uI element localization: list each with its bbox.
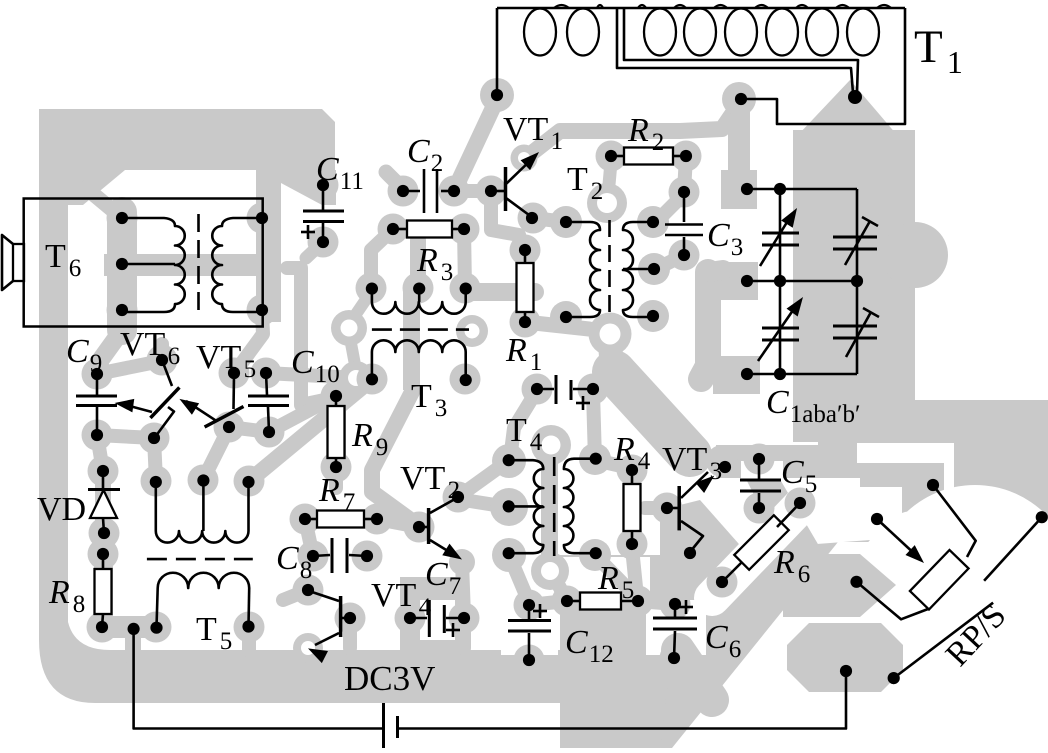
label T1 xyxy=(914,21,963,80)
svg-text:R: R xyxy=(505,332,527,369)
pad T6 tr xyxy=(247,203,278,234)
copper white pocket around C5 xyxy=(741,461,783,515)
svg-text:5: 5 xyxy=(805,471,818,498)
svg-text:2: 2 xyxy=(652,129,665,156)
pad C4 l xyxy=(522,374,553,405)
pad T5 2 xyxy=(188,465,219,496)
pad VT5 coll xyxy=(219,358,250,389)
svg-text:R: R xyxy=(773,544,795,581)
svg-text:1: 1 xyxy=(551,128,564,155)
pad R5 l xyxy=(552,586,583,617)
pad R1 b xyxy=(510,307,541,338)
svg-text:R: R xyxy=(48,574,70,611)
copper trace R4 to VT3 base xyxy=(645,501,667,515)
capacitor C7 electrolytic xyxy=(404,600,470,637)
copper trace T4 bl to C12 xyxy=(509,555,528,600)
copper trace T5 mid up xyxy=(203,430,228,480)
pad T5 4 xyxy=(141,612,172,643)
pad VT6 coll xyxy=(147,345,178,376)
capacitor C6 electrolytic xyxy=(653,598,697,664)
label VT1 xyxy=(503,111,563,155)
copper bottom-center mass with diagonal edge xyxy=(501,540,870,748)
pad VD b xyxy=(89,518,120,549)
copper trace T5 to T3 diagonal xyxy=(249,379,372,481)
copper swath T2 ring down to R4/VT3 xyxy=(610,342,690,455)
potentiometer RP body xyxy=(910,550,969,609)
pad R8 b xyxy=(87,612,118,643)
pad VT2 coll xyxy=(443,482,474,513)
svg-text:C: C xyxy=(407,133,430,170)
svg-text:VT: VT xyxy=(371,577,417,614)
svg-text:C: C xyxy=(425,556,448,593)
pad R8 t xyxy=(88,539,119,570)
capacitor C3 xyxy=(665,186,703,261)
label C12 xyxy=(565,624,614,668)
svg-text:2: 2 xyxy=(591,178,604,205)
svg-text:R: R xyxy=(416,242,438,279)
pad T6 ml xyxy=(107,249,138,280)
transistor VT4 xyxy=(302,584,356,663)
pad R6 b xyxy=(707,567,738,598)
label C11 xyxy=(316,151,364,195)
copper trace VT2 emitter to C7 xyxy=(449,549,475,616)
capacitor C12 electrolytic xyxy=(508,599,551,666)
node junction R8-T5 xyxy=(128,623,140,635)
pad C7 r xyxy=(449,603,480,634)
capacitor C5 xyxy=(740,453,781,514)
label C5 xyxy=(781,454,817,498)
copper trace T6 lower-right diagonal xyxy=(238,312,263,368)
copper island parallelogram under C5 xyxy=(747,481,822,562)
pad VT5 base xyxy=(214,412,245,443)
pad T3 4 xyxy=(357,364,388,395)
resistor R5 xyxy=(561,593,644,610)
label R3 xyxy=(416,242,453,286)
resistor R6 xyxy=(716,497,806,588)
pad C8 r xyxy=(352,541,383,572)
pad R2 right xyxy=(671,141,702,172)
wire T1 right wrap xyxy=(741,8,905,124)
copper island pointed mass xyxy=(783,554,896,617)
svg-text:T: T xyxy=(914,21,943,73)
pad C10 top xyxy=(251,358,282,389)
copper right spade blob xyxy=(793,80,948,442)
transistor VT5 xyxy=(179,367,243,433)
pad VT6 base xyxy=(139,423,170,454)
pad VT1 base xyxy=(476,176,507,207)
copper trace VD to R8 xyxy=(103,533,104,556)
via T3 right xyxy=(456,315,488,347)
label R1 xyxy=(505,332,542,376)
svg-text:11: 11 xyxy=(340,168,364,195)
label T4 xyxy=(506,412,543,456)
pad C7 l xyxy=(395,603,426,634)
resistor R4 xyxy=(624,464,641,550)
battery DC3V xyxy=(384,703,398,748)
svg-text:1aba′b′: 1aba′b′ xyxy=(790,401,861,428)
speaker xyxy=(2,235,24,290)
copper trace C9b to VD xyxy=(97,435,103,471)
pad C6 t xyxy=(660,589,691,620)
trimmer capacitor C1b' xyxy=(833,308,879,357)
copper trace column inside T6 xyxy=(97,212,334,405)
svg-text:T: T xyxy=(196,611,217,648)
pad T2 tl xyxy=(550,206,582,238)
copper trace R7 to C8 xyxy=(305,519,313,556)
copper swath C6 to bottom xyxy=(678,650,712,700)
copper trace R9 bottom to R7 xyxy=(329,467,343,488)
copper trace C3 to T2 mid xyxy=(656,255,684,269)
svg-text:10: 10 xyxy=(315,361,340,388)
pad VD t xyxy=(88,456,119,487)
copper mass around VT3 emitter and C6 xyxy=(646,500,746,655)
via VT4 emitter xyxy=(293,633,323,663)
svg-text:R: R xyxy=(351,417,373,454)
copper band left of varcap column xyxy=(701,270,723,379)
capacitor C8 xyxy=(307,538,373,573)
resistor R8 xyxy=(95,548,112,633)
resistor R7 xyxy=(299,511,383,528)
via T2 top xyxy=(587,183,627,223)
copper stub ring to T3 left pad xyxy=(350,292,371,370)
pad T3 2 xyxy=(403,273,434,304)
label R7 xyxy=(318,472,355,516)
copper stub VT6 collector xyxy=(155,344,169,362)
svg-text:7: 7 xyxy=(449,573,462,600)
svg-text:4: 4 xyxy=(419,594,432,621)
svg-text:8: 8 xyxy=(73,591,86,618)
copper blob R8 bottom junction xyxy=(100,627,158,658)
pad T4 tr xyxy=(579,443,611,475)
svg-text:3: 3 xyxy=(441,259,454,286)
svg-text:1: 1 xyxy=(530,349,543,376)
transistor VT1 xyxy=(485,152,539,224)
label C3 xyxy=(707,217,743,261)
pad R4 b xyxy=(617,529,648,560)
copper trace R4 to R5 xyxy=(632,548,637,597)
pad T3 5 xyxy=(450,364,481,395)
resistor R9 xyxy=(328,390,345,473)
pad R4 t xyxy=(617,455,648,486)
label T3 xyxy=(411,378,447,422)
via T3 left xyxy=(331,310,367,346)
label C6 xyxy=(705,619,741,663)
copper trace T1 pad to VT1 collector xyxy=(528,104,739,156)
switch S contact xyxy=(984,511,1048,581)
svg-text:R: R xyxy=(613,431,635,468)
copper blob under C7 xyxy=(400,577,460,652)
svg-text:4: 4 xyxy=(530,429,543,456)
pad R9 b xyxy=(321,452,352,483)
svg-text:12: 12 xyxy=(589,641,614,668)
copper white cut diagonal channel bottom-right xyxy=(672,443,1048,748)
transformer T5 xyxy=(147,474,255,633)
label VT3 xyxy=(662,441,722,485)
copper band R3 xyxy=(393,220,464,239)
svg-text:6: 6 xyxy=(798,561,811,588)
pad VT3 base xyxy=(652,493,683,524)
pad C4 r xyxy=(578,374,609,405)
svg-text:T: T xyxy=(45,238,66,275)
pad C5 t xyxy=(744,444,775,475)
copper diag trace T6 pad to edge xyxy=(86,188,122,218)
pad C11 bottom xyxy=(308,227,339,258)
pad T3 1 xyxy=(356,273,387,304)
label R8 xyxy=(48,574,85,618)
pad T6 bl xyxy=(107,295,138,326)
pad C6 b xyxy=(660,643,691,674)
pad T2 br xyxy=(637,300,669,332)
svg-text:2: 2 xyxy=(448,477,461,504)
copper trace C9 to VT6 base xyxy=(97,435,154,438)
copper stub VT4 base down xyxy=(343,625,357,648)
label C2 xyxy=(407,133,443,177)
pad C10 bottom xyxy=(254,417,285,448)
copper band R9 xyxy=(327,392,346,470)
copper trace R2 to ring xyxy=(608,162,611,196)
transformer T6 xyxy=(116,212,268,316)
pad T5 5 xyxy=(234,612,265,643)
svg-text:DC3V: DC3V xyxy=(344,659,435,698)
svg-text:VT: VT xyxy=(503,111,549,148)
via T4 bottom xyxy=(531,552,569,590)
copper trace C9 to VT6 xyxy=(97,362,156,374)
svg-text:3: 3 xyxy=(731,234,744,261)
pad R1 t xyxy=(510,235,541,266)
wire T6 output loop xyxy=(24,199,263,327)
copper pour top-left block xyxy=(39,109,336,322)
pad VT1 emitter xyxy=(518,203,549,234)
copper trace R9 top to T3 xyxy=(338,381,370,393)
svg-text:9: 9 xyxy=(376,434,389,461)
svg-text:T: T xyxy=(411,378,432,415)
pad C9 top xyxy=(82,359,113,390)
copper trace C4 to T4 xyxy=(511,392,536,452)
copper band R8 xyxy=(94,551,113,630)
pad T6 tl xyxy=(107,203,138,234)
pad C3 top xyxy=(669,177,700,208)
svg-text:VT: VT xyxy=(400,460,446,497)
svg-text:6: 6 xyxy=(168,343,181,370)
svg-text:3: 3 xyxy=(435,395,448,422)
pad C5 b xyxy=(744,493,775,524)
copper trace T4 right to C4 xyxy=(593,392,595,460)
copper board edge left xyxy=(39,200,110,703)
pad R3 r xyxy=(449,214,480,245)
copper stub T5 right down xyxy=(242,627,256,650)
capacitor C9 xyxy=(76,368,117,441)
svg-text:8: 8 xyxy=(300,557,313,584)
node C1 b1 xyxy=(741,368,753,380)
svg-text:7: 7 xyxy=(343,489,356,516)
svg-text:C: C xyxy=(66,333,89,370)
pad T2 tr xyxy=(637,206,669,238)
label T6 xyxy=(45,238,81,282)
node T1 tap xyxy=(848,90,862,104)
label T2 xyxy=(567,161,603,205)
copper band VD xyxy=(95,465,111,536)
wire T1 inner taps xyxy=(617,8,858,93)
pad T4 ml xyxy=(490,488,528,526)
pad VT2 base xyxy=(404,512,435,543)
label VT2 xyxy=(400,460,460,504)
copper trace R7 to VT2 base xyxy=(377,519,419,527)
pad R6 t xyxy=(785,488,816,519)
svg-text:6: 6 xyxy=(729,636,742,663)
svg-text:C: C xyxy=(707,217,730,254)
copper via VT1 collector xyxy=(511,145,538,172)
pad T6 br xyxy=(247,295,278,326)
copper trace VT1 emitter to T2 xyxy=(533,218,566,222)
label C7 xyxy=(425,556,461,600)
pad C11 top xyxy=(308,170,339,201)
resistor R1 xyxy=(517,244,534,328)
copper white channel along R6 xyxy=(712,496,810,598)
svg-text:C: C xyxy=(291,344,314,381)
svg-text:C: C xyxy=(565,624,588,661)
label C1aba'b' xyxy=(766,384,860,428)
pad C9 bottom xyxy=(82,420,113,451)
label C9 xyxy=(66,333,102,377)
copper board bottom band xyxy=(95,650,700,703)
copper trace VT5 base to C10 xyxy=(229,427,269,432)
copper right mid blocks xyxy=(860,408,1048,535)
label R9 xyxy=(351,417,388,461)
svg-text:VT: VT xyxy=(662,441,708,478)
trimmer capacitor C1a' xyxy=(833,217,878,265)
pad T4 tl xyxy=(492,444,526,478)
copper band under R1 bottom xyxy=(465,248,535,318)
node C1 t2 xyxy=(774,183,786,195)
svg-text:C: C xyxy=(705,619,728,656)
label VT5 xyxy=(196,339,256,383)
pad VT3 emitter xyxy=(676,540,707,571)
wire battery positive right xyxy=(398,671,847,729)
svg-text:T: T xyxy=(567,161,588,198)
copper trace C2 stub xyxy=(386,172,406,192)
pad C2 left xyxy=(388,176,419,207)
pad T2 mr xyxy=(638,253,670,285)
switch S lever xyxy=(888,603,993,685)
pad T5 3 xyxy=(234,466,265,497)
capacitor C4 electrolytic xyxy=(531,375,599,410)
node C1 m1 xyxy=(741,275,753,287)
svg-text:T: T xyxy=(506,412,527,449)
label VT4 xyxy=(371,577,432,621)
label VT6 xyxy=(120,326,180,370)
pad T4 bl xyxy=(492,538,526,572)
potentiometer RP wiper arrow xyxy=(871,513,924,563)
capacitor C11 electrolytic xyxy=(301,179,344,248)
copper trace R1 to T2 bottom xyxy=(525,322,589,329)
copper trace R3 to T3 left xyxy=(371,229,393,288)
pad C2 right xyxy=(439,176,470,207)
variable capacitor block C1 rails xyxy=(747,189,857,374)
copper band T4 core xyxy=(541,455,558,560)
pad VT4 base xyxy=(335,603,366,634)
variable capacitor C1b xyxy=(758,297,803,361)
label VD xyxy=(37,491,86,528)
pad R7 r xyxy=(362,504,393,535)
svg-text:9: 9 xyxy=(90,350,103,377)
diode VD xyxy=(88,465,120,539)
node T1 right xyxy=(735,93,747,105)
label DC3V xyxy=(344,659,435,698)
pad R2 left xyxy=(596,141,627,172)
wire battery negative left xyxy=(134,629,384,729)
pad VT4 coll xyxy=(293,575,324,606)
pad T1 mid xyxy=(722,82,756,116)
pad T1 left xyxy=(480,78,514,112)
via T2 bottom xyxy=(589,313,632,356)
pad C3 bottom xyxy=(669,240,700,271)
copper trace T4 br to R5 xyxy=(595,555,637,598)
label R5 xyxy=(597,560,634,604)
label R2 xyxy=(627,112,664,156)
pad T3 3 xyxy=(450,273,481,304)
via T4 top xyxy=(531,425,571,465)
transistor VT2 xyxy=(413,491,464,560)
transformer T2 xyxy=(560,216,660,323)
svg-text:VT: VT xyxy=(120,326,166,363)
copper trace VT1 base to R1 xyxy=(491,191,525,252)
copper trace T5 left up xyxy=(154,438,156,481)
label R4 xyxy=(613,431,651,475)
wire T1 left lead xyxy=(496,8,499,95)
via near C10 xyxy=(339,361,373,395)
copper trace C10 to ring xyxy=(266,373,340,377)
svg-text:C: C xyxy=(276,540,299,577)
node C1 m2 xyxy=(774,275,786,287)
capacitor C10 xyxy=(248,367,289,438)
copper trace C2 to VT1 base xyxy=(454,184,491,198)
transformer T3 xyxy=(366,283,472,387)
pad C12 b xyxy=(514,645,545,676)
svg-text:R: R xyxy=(627,112,649,149)
svg-text:C: C xyxy=(781,454,804,491)
svg-text:C: C xyxy=(316,151,339,188)
copper trace R5 to C6 xyxy=(638,601,675,604)
copper trace T3 center column xyxy=(372,240,420,524)
copper band R5 xyxy=(567,592,638,611)
svg-text:VD: VD xyxy=(37,491,86,528)
copper trace C11 bottom diagonal xyxy=(306,242,323,258)
svg-text:R: R xyxy=(597,560,619,597)
label RP/S xyxy=(939,597,1014,673)
copper trace VT2 coll to T4 xyxy=(458,461,508,507)
label C10 xyxy=(291,344,340,388)
variable capacitor C1a xyxy=(760,208,799,266)
node C1 b2 xyxy=(774,368,786,380)
svg-text:R: R xyxy=(318,472,340,509)
copper band R4 xyxy=(624,465,640,548)
pad T5 1 xyxy=(141,466,172,497)
node T1 left xyxy=(491,89,503,101)
pad C8 l xyxy=(298,541,329,572)
svg-text:2: 2 xyxy=(431,150,444,177)
resistor R2 xyxy=(605,148,692,165)
svg-text:3: 3 xyxy=(710,458,723,485)
svg-text:4: 4 xyxy=(638,448,651,475)
capacitor C2 xyxy=(397,169,460,213)
svg-text:VT: VT xyxy=(196,339,242,376)
svg-text:6: 6 xyxy=(69,255,82,282)
copper island octagon xyxy=(787,623,903,692)
svg-text:C: C xyxy=(766,384,789,421)
pad T2 bl xyxy=(550,301,582,333)
label C8 xyxy=(276,540,312,584)
pad R7 l xyxy=(290,504,321,535)
